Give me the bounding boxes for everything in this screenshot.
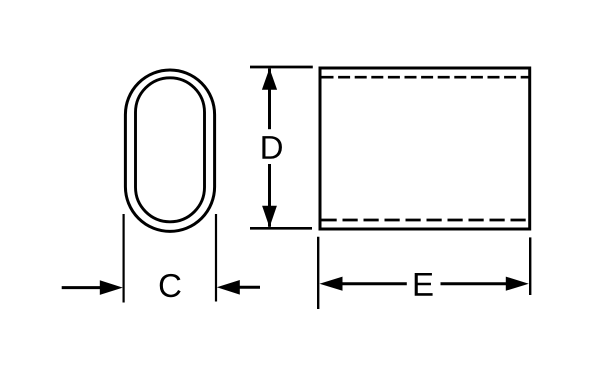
- extension line D top: [250, 66, 313, 69]
- extension line E right: [529, 237, 531, 295]
- dimension E right leader line: [441, 282, 507, 285]
- sleeve side-view rectangle: [320, 68, 530, 229]
- sleeve end-view outer oval: [125, 70, 214, 231]
- label D: [262, 136, 282, 159]
- side-view hidden bore line top (dashed): [322, 76, 529, 79]
- label C: [160, 274, 181, 297]
- extension line E left: [317, 237, 319, 309]
- extension line C left: [122, 214, 124, 303]
- dimension D line lower segment: [268, 164, 271, 227]
- dimension D up arrowhead: [262, 68, 277, 90]
- dimension D line upper segment: [268, 69, 271, 130]
- extension line D bottom: [250, 227, 312, 230]
- label E: [415, 273, 433, 296]
- dimension C left leader line: [62, 286, 102, 289]
- side-view hidden bore line bottom (dashed): [322, 219, 529, 222]
- dimension E right arrowhead: [506, 277, 529, 291]
- dimension C right leader line: [238, 286, 260, 289]
- dimension E left leader line: [341, 282, 407, 285]
- sleeve end-view inner oval: [136, 78, 205, 222]
- dimension E left arrowhead: [320, 277, 343, 291]
- dimension C left arrowhead: [100, 280, 123, 295]
- dimension C right arrowhead: [217, 280, 240, 295]
- extension line C right: [215, 214, 217, 302]
- dimension D down arrowhead: [262, 206, 277, 228]
